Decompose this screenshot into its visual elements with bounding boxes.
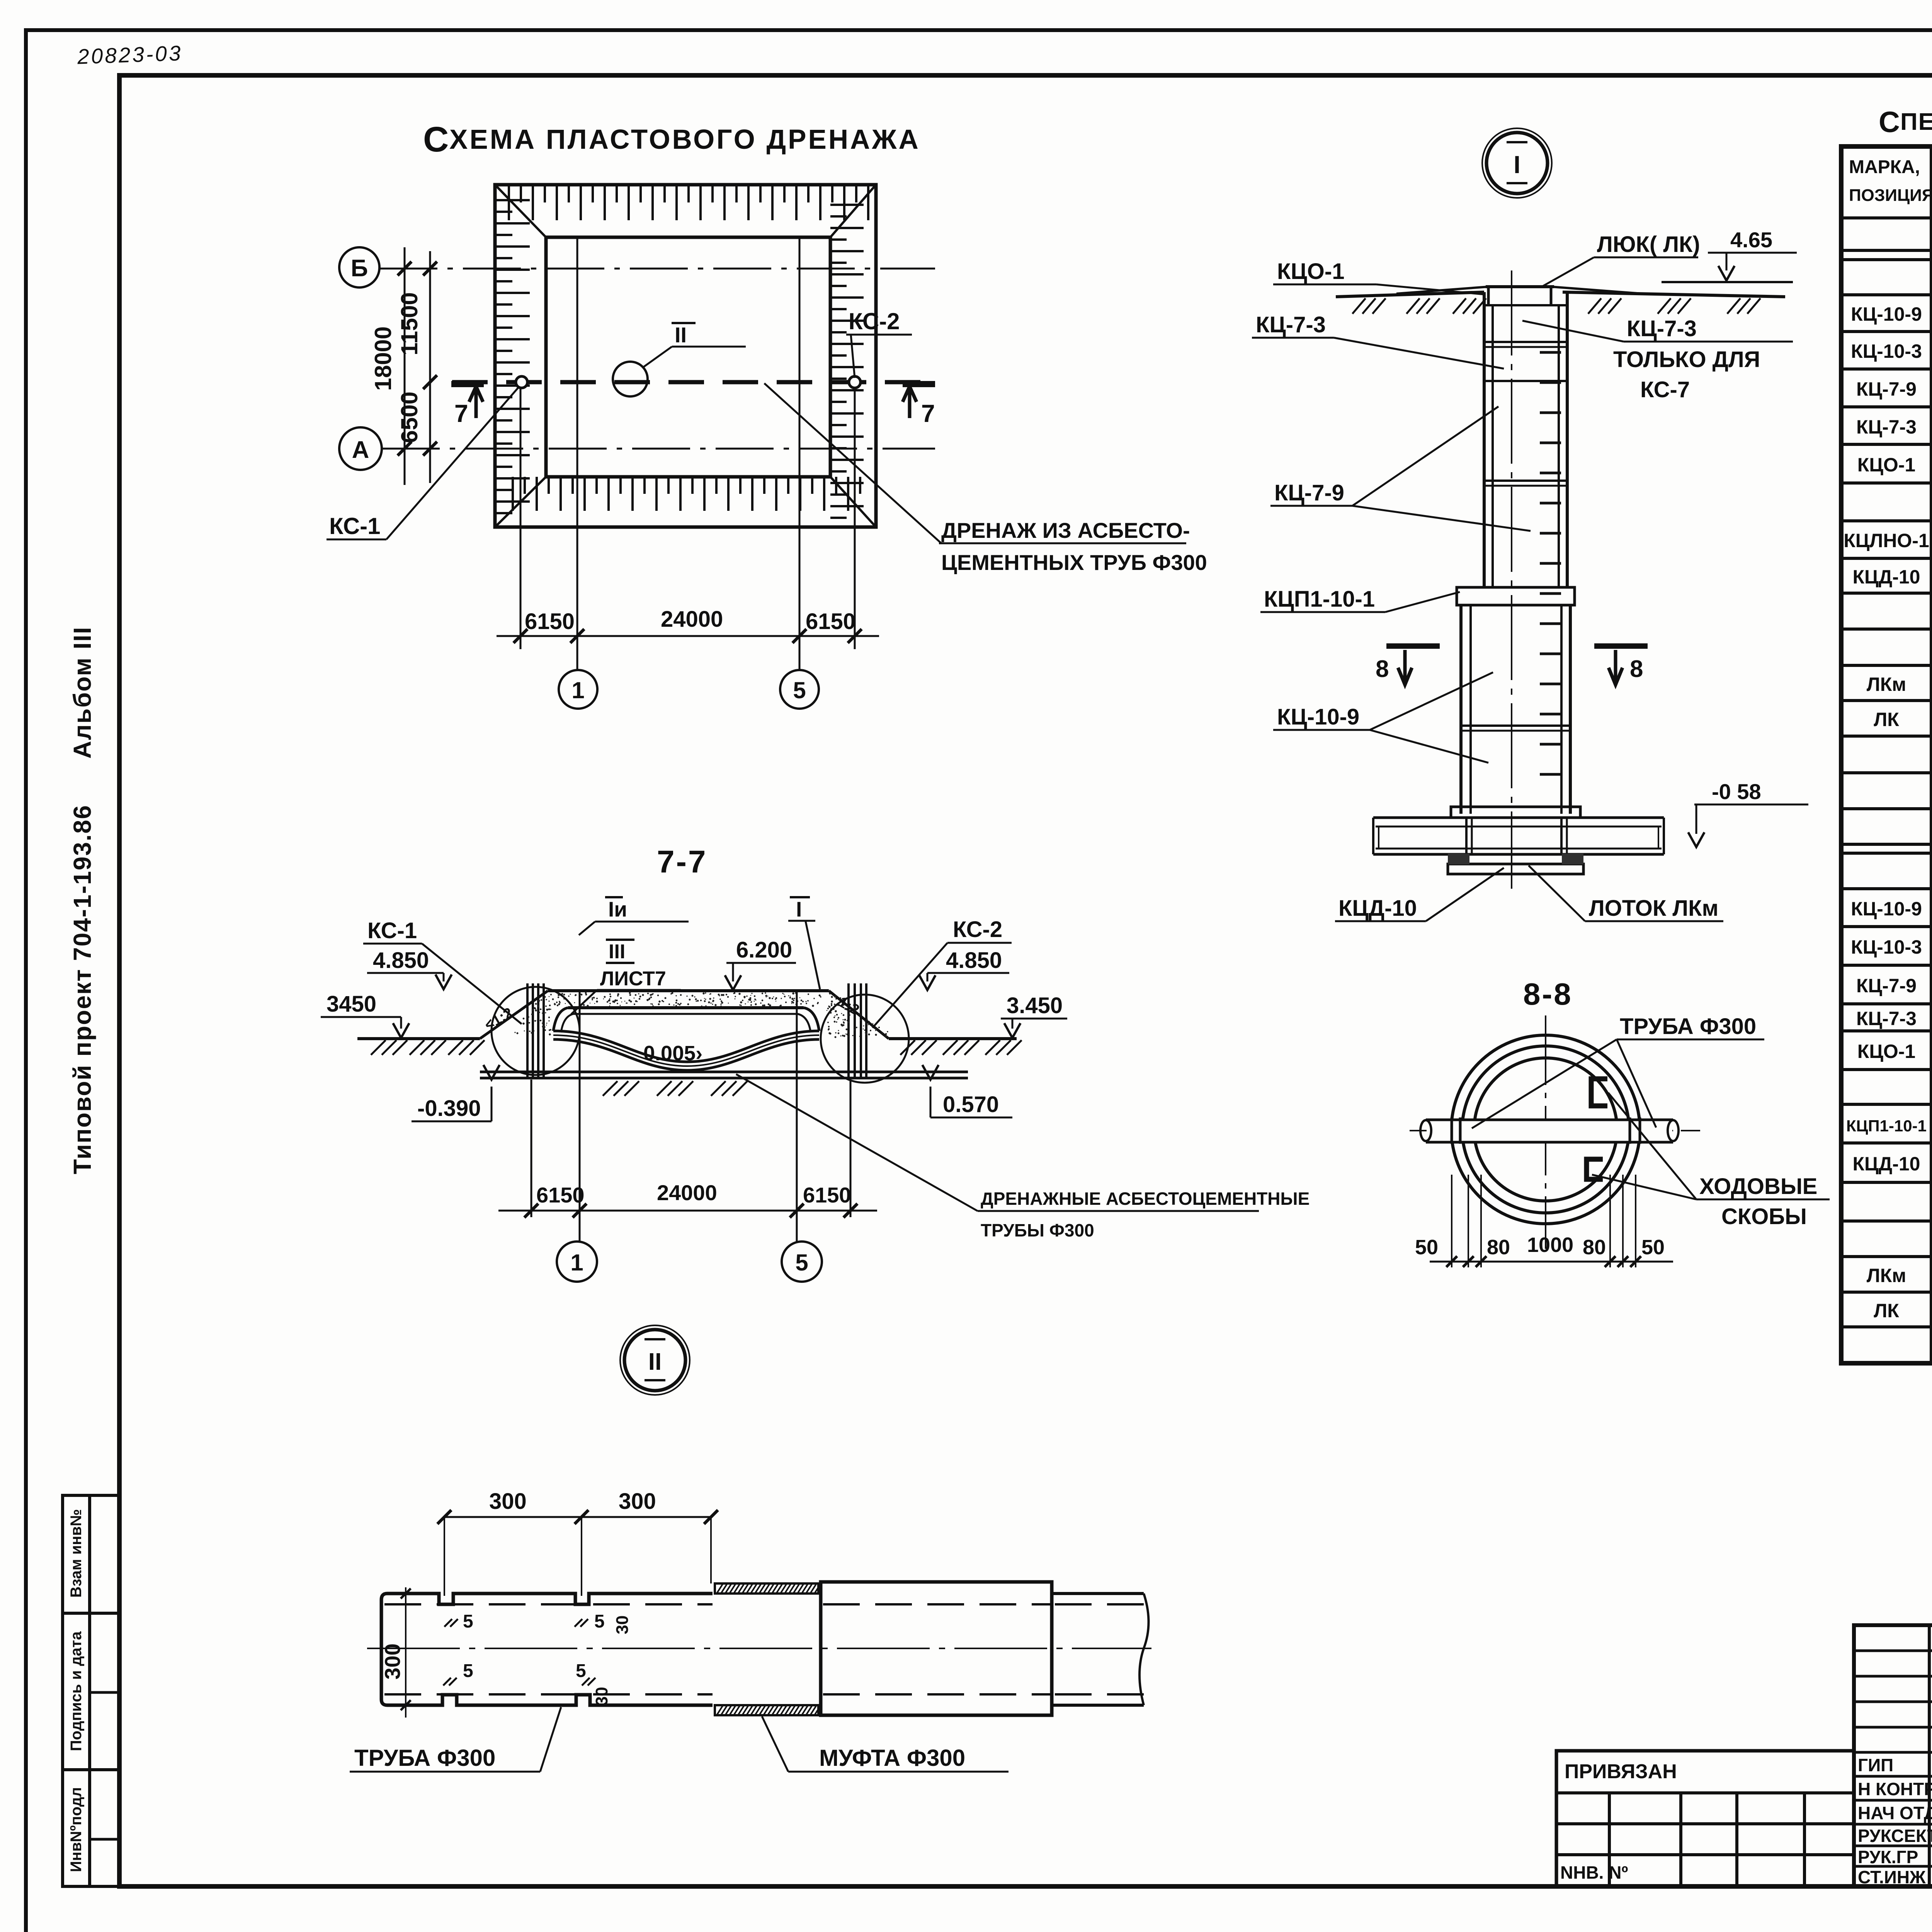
- node circle II on plan: [613, 362, 648, 396]
- horizontal drain pipe at well base: [1373, 816, 1664, 819]
- svg-text:11500: 11500: [396, 292, 422, 355]
- label II with leader: [643, 347, 672, 367]
- ground line left of well: [1336, 292, 1484, 297]
- svg-text:1: 1: [570, 1250, 583, 1276]
- well KC-1 shaft in section: [526, 983, 529, 1078]
- slope note 1:2 left: [482, 1005, 516, 1034]
- section 7-7 dimension line: [498, 1210, 877, 1212]
- svg-text:ПРИВЯЗАН: ПРИВЯЗАН: [1565, 1760, 1677, 1783]
- svg-text:КС-1: КС-1: [329, 513, 381, 539]
- svg-text:ЛК: ЛК: [1874, 709, 1899, 730]
- well wall hubs crossing pipe: [1465, 818, 1468, 854]
- pipe hubs at well walls 8-8: [1451, 1117, 1453, 1144]
- drain pipes curved in section: [553, 1031, 819, 1062]
- svg-text:I: I: [1514, 151, 1520, 179]
- svg-text:5: 5: [795, 1250, 808, 1276]
- manhole KC-2 on plan: [849, 376, 861, 388]
- svg-text:КЦ-7-9: КЦ-7-9: [1274, 480, 1344, 505]
- svg-text:30: 30: [592, 1687, 611, 1706]
- svg-text:ХОДОВЫЕ: ХОДОВЫЕ: [1699, 1174, 1817, 1199]
- svg-text:I: I: [796, 897, 802, 921]
- svg-text:6150: 6150: [536, 1183, 585, 1207]
- svg-text:КЦ-7-3: КЦ-7-3: [1856, 416, 1917, 438]
- svg-text:5: 5: [576, 1661, 586, 1681]
- leader from pipe label to pipe: [736, 1074, 978, 1211]
- svg-text:ЦЕМЕНТНЫХ ТРУБ Ф300: ЦЕМЕНТНЫХ ТРУБ Ф300: [941, 550, 1207, 575]
- pipe dashed inner walls: [384, 1603, 713, 1605]
- svg-text:С: С: [1879, 106, 1900, 139]
- detail circle at well KC-1: [492, 987, 580, 1075]
- ladder bracket top 8-8: [1591, 1079, 1607, 1106]
- svg-text:СКОБЫ: СКОБЫ: [1721, 1204, 1807, 1229]
- svg-text:24000: 24000: [661, 607, 723, 632]
- stipple dots on berm: [727, 996, 729, 998]
- svg-text:Б: Б: [351, 255, 368, 282]
- svg-text:МАРКА,: МАРКА,: [1849, 157, 1920, 177]
- svg-text:КЦД-10: КЦД-10: [1853, 1153, 1920, 1175]
- svg-text:6150: 6150: [806, 609, 855, 634]
- svg-text:80: 80: [1583, 1236, 1606, 1259]
- svg-text:3.450: 3.450: [1007, 993, 1063, 1018]
- svg-text:КЦП1-10-1: КЦП1-10-1: [1264, 587, 1375, 612]
- inventory number 20823-03 handwritten: [77, 41, 183, 69]
- pipe detail extension verticals: [444, 1517, 445, 1596]
- section 8-8 concentric rings: [1451, 1035, 1640, 1224]
- left bottom attribute boxes: [63, 1495, 120, 1886]
- svg-text:КЦЛНО-1: КЦЛНО-1: [1844, 530, 1929, 551]
- svg-text:КС-7: КС-7: [1640, 377, 1690, 402]
- svg-text:4.65: 4.65: [1730, 228, 1772, 252]
- coupling muff sleeve box: [821, 1582, 1052, 1715]
- svg-text:0.005›: 0.005›: [643, 1042, 702, 1065]
- svg-text:II: II: [675, 323, 687, 347]
- well KC-2 shaft in section: [847, 983, 850, 1078]
- svg-text:ПЕЦИФИКАЦИЯ К СХЕМЕ ПЛАСТОВОГО: ПЕЦИФИКАЦИЯ К СХЕМЕ ПЛАСТОВОГО ДРЕНАЖА: [1900, 109, 1932, 135]
- axis circle Б: [339, 247, 379, 287]
- svg-text:КЦО-1: КЦО-1: [1857, 1041, 1915, 1062]
- svg-text:ТРУБЫ Ф300: ТРУБЫ Ф300: [981, 1220, 1094, 1240]
- svg-text:ТРУБА Ф300: ТРУБА Ф300: [354, 1745, 495, 1771]
- svg-text:РУКСЕКТ: РУКСЕКТ: [1858, 1826, 1932, 1846]
- slope note 1:2 right: [835, 994, 862, 1019]
- svg-text:7: 7: [921, 400, 935, 427]
- section 7-7 extension verticals: [531, 1080, 532, 1217]
- svg-text:7: 7: [454, 400, 468, 427]
- svg-text:КЦП1-10-1: КЦП1-10-1: [1846, 1117, 1927, 1135]
- svg-text:КЦ-7-9: КЦ-7-9: [1856, 975, 1917, 997]
- svg-text:6150: 6150: [525, 609, 575, 634]
- svg-text:Н КОНТР: Н КОНТР: [1858, 1779, 1932, 1799]
- ground hatch marks section 7-7: [371, 1040, 386, 1055]
- svg-text:КЦД-10: КЦД-10: [1853, 566, 1920, 588]
- detail circle at well KC-2: [821, 995, 909, 1083]
- vertical dimension line 11500/6500: [429, 251, 431, 483]
- pipe body outline with joint notches: [381, 1594, 713, 1705]
- axis circle А: [339, 427, 382, 470]
- plan corner diagonals: [495, 185, 546, 237]
- svg-text:0.570: 0.570: [943, 1092, 999, 1117]
- svg-text:-0 58: -0 58: [1712, 779, 1761, 804]
- well centerline: [1511, 270, 1512, 889]
- svg-text:Iи: Iи: [608, 897, 627, 921]
- svg-text:6150: 6150: [803, 1183, 851, 1207]
- pipe centerline: [367, 1648, 1151, 1649]
- manhole cover luk: [1396, 287, 1488, 294]
- svg-text:8: 8: [1376, 656, 1389, 682]
- svg-text:КЦ-10-9: КЦ-10-9: [1851, 898, 1922, 920]
- svg-text:КЦ-10-3: КЦ-10-3: [1851, 340, 1922, 362]
- plan extension verticals: [577, 236, 578, 670]
- table row lines: [1841, 216, 1932, 219]
- lower column walls: [1459, 605, 1463, 814]
- svg-text:8-8: 8-8: [1523, 977, 1573, 1011]
- svg-text:НАЧ ОТД: НАЧ ОТД: [1858, 1803, 1932, 1823]
- svg-text:С: С: [423, 120, 451, 159]
- pipe detail dimension line 300+300: [444, 1516, 711, 1518]
- svg-text:Взам инв№: Взам инв№: [68, 1509, 85, 1597]
- node circle II below section: [620, 1325, 690, 1395]
- manhole KC-1 on plan: [516, 376, 527, 388]
- svg-text:А: А: [352, 437, 369, 463]
- svg-text:24000: 24000: [657, 1180, 717, 1205]
- svg-text:1000: 1000: [1527, 1233, 1573, 1257]
- svg-text:КЦ-10-9: КЦ-10-9: [1851, 303, 1922, 325]
- title block: privyazan box: [1556, 1751, 1854, 1886]
- axis circle 5 section: [782, 1242, 822, 1282]
- berm outline: [480, 991, 548, 1039]
- lotok hatched bits: [1448, 854, 1469, 864]
- svg-text:5: 5: [463, 1611, 473, 1632]
- svg-text:КЦ-7-9: КЦ-7-9: [1856, 378, 1917, 400]
- svg-text:20823-03: 20823-03: [77, 41, 183, 69]
- table column lines: [1930, 146, 1932, 1363]
- plan view hatched band outer rectangle: [495, 185, 876, 527]
- axis circle 1 section: [557, 1242, 597, 1282]
- ring joints lower column: [1461, 724, 1570, 727]
- svg-text:1: 1: [571, 677, 584, 703]
- svg-text:КС-2: КС-2: [849, 308, 900, 334]
- svg-text:Подпись и дата: Подпись и дата: [68, 1631, 85, 1751]
- svg-text:300: 300: [489, 1489, 527, 1514]
- title block: signature grid: [1854, 1625, 1932, 1886]
- svg-text:ЛК: ЛК: [1874, 1300, 1899, 1321]
- svg-text:КЦ-10-3: КЦ-10-3: [1851, 936, 1922, 958]
- right pipe after coupling: [1052, 1592, 1144, 1595]
- axis line А: [382, 448, 935, 450]
- section mark 7 left: [451, 381, 484, 387]
- svg-text:ЛЮК( ЛК): ЛЮК( ЛК): [1597, 232, 1700, 257]
- blanket left end curves: [553, 1008, 568, 1031]
- svg-text:NНВ. Nº: NНВ. Nº: [1560, 1862, 1628, 1883]
- table outer border: [1841, 146, 1932, 1363]
- svg-text:8: 8: [1630, 656, 1643, 682]
- svg-text:50: 50: [1415, 1236, 1438, 1259]
- vertical dimension line 18000: [404, 247, 406, 485]
- section 8-8 horizontal centerline: [1410, 1130, 1700, 1131]
- svg-text:КС-1: КС-1: [367, 918, 417, 943]
- svg-text:4.850: 4.850: [373, 948, 429, 973]
- coupling muff hatched wedges: [715, 1583, 818, 1594]
- ladder bracket bottom 8-8: [1587, 1159, 1603, 1179]
- section mark 8 right: [1594, 643, 1648, 649]
- ground line left of berm: [357, 1037, 480, 1040]
- drainage blanket top in section: [568, 1006, 804, 1009]
- section 8-8 vertical centerline: [1545, 1015, 1546, 1249]
- svg-text:КЦ-10-9: КЦ-10-9: [1277, 704, 1359, 730]
- svg-text:6500: 6500: [396, 391, 422, 443]
- node circle I above well section: [1482, 128, 1552, 198]
- plan hatch ticks right band: [508, 185, 510, 220]
- svg-text:КЦД-10: КЦД-10: [1338, 896, 1417, 921]
- svg-text:ДРЕНАЖНЫЕ АСБЕСТОЦЕМЕНТНЫЕ: ДРЕНАЖНЫЕ АСБЕСТОЦЕМЕНТНЫЕ: [981, 1189, 1310, 1209]
- svg-text:3450: 3450: [327, 992, 376, 1017]
- svg-text:Типовой проект 704-1-193.86: Типовой проект 704-1-193.86 Альбом III: [68, 626, 96, 1174]
- section 8-8 extension verticals: [1451, 1175, 1452, 1267]
- plan view inner rectangle: [546, 237, 830, 477]
- svg-text:7-7: 7-7: [657, 844, 707, 879]
- svg-text:ИнвNºподл: ИнвNºподл: [68, 1787, 85, 1872]
- svg-text:КЦ-7-3: КЦ-7-3: [1256, 312, 1326, 337]
- svg-text:III: III: [609, 940, 625, 963]
- svg-text:18000: 18000: [370, 327, 396, 391]
- section mark 7 right: [903, 381, 935, 387]
- svg-text:КЦ-7-3: КЦ-7-3: [1627, 316, 1697, 341]
- svg-text:5: 5: [463, 1661, 473, 1681]
- svg-text:КС-2: КС-2: [953, 917, 1002, 942]
- ground line right of well: [1563, 292, 1785, 297]
- svg-text:ДРЕНАЖ ИЗ АСБЕСТО-: ДРЕНАЖ ИЗ АСБЕСТО-: [941, 518, 1190, 543]
- svg-text:50: 50: [1641, 1236, 1665, 1259]
- svg-text:ТОЛЬКО ДЛЯ: ТОЛЬКО ДЛЯ: [1613, 347, 1760, 372]
- section mark 8 left: [1386, 643, 1440, 649]
- pipe end caps at well base: [1372, 818, 1374, 854]
- axis circle 1 plan: [559, 670, 597, 709]
- svg-text:КЦ-7-3: КЦ-7-3: [1856, 1008, 1917, 1029]
- svg-text:5: 5: [594, 1611, 605, 1632]
- svg-text:ТРУБА Ф300: ТРУБА Ф300: [1620, 1014, 1756, 1039]
- svg-text:СТ.ИНЖ: СТ.ИНЖ: [1858, 1867, 1926, 1887]
- svg-text:300: 300: [380, 1643, 405, 1679]
- svg-text:300: 300: [619, 1489, 656, 1514]
- bottom flange: [1451, 807, 1580, 818]
- leader from drain label to pipe: [764, 383, 941, 543]
- svg-text:6.200: 6.200: [736, 937, 792, 963]
- svg-text:ПОЗИЦИЯ: ПОЗИЦИЯ: [1849, 186, 1932, 205]
- axis line Б: [379, 268, 935, 270]
- svg-text:КЦО-1: КЦО-1: [1277, 259, 1344, 284]
- svg-text:ХЕМА ПЛАСТОВОГО ДРЕНАЖА: ХЕМА ПЛАСТОВОГО ДРЕНАЖА: [449, 124, 920, 155]
- drain pipe dashed centerline: [452, 380, 933, 384]
- svg-text:КЦО-1: КЦО-1: [1857, 454, 1915, 476]
- svg-text:II: II: [648, 1349, 662, 1375]
- slab КЦП1-10-1: [1457, 587, 1575, 605]
- svg-text:ЛОТОК ЛКм: ЛОТОК ЛКм: [1589, 896, 1718, 921]
- svg-text:4.850: 4.850: [946, 948, 1002, 973]
- blanket right end curves: [804, 1008, 819, 1031]
- axis circle 5 plan: [780, 670, 819, 709]
- svg-text:5: 5: [793, 677, 806, 703]
- svg-text:-0.390: -0.390: [417, 1096, 481, 1121]
- bottom slab КЦД-10: [1448, 864, 1583, 874]
- plan bottom dimension line 6150/24000/6150: [497, 635, 879, 637]
- svg-text:80: 80: [1487, 1236, 1510, 1259]
- svg-text:30: 30: [613, 1616, 632, 1634]
- ground hatch right of well: [1352, 298, 1366, 314]
- foundation lines under tank: [480, 1071, 968, 1073]
- svg-text:ГИП: ГИП: [1858, 1755, 1893, 1775]
- svg-text:ЛИСТ7: ЛИСТ7: [600, 968, 666, 990]
- svg-text:ЛКм: ЛКм: [1867, 1265, 1906, 1286]
- ladder rungs: [1540, 351, 1561, 354]
- section 8-8 dimension line: [1430, 1261, 1673, 1263]
- pipe through well 8-8: [1427, 1120, 1672, 1142]
- svg-text:РУК.ГР: РУК.ГР: [1858, 1847, 1918, 1867]
- ring joints upper shaft: [1484, 341, 1567, 343]
- svg-text:МУФТА Ф300: МУФТА Ф300: [819, 1745, 965, 1771]
- upper shaft walls: [1483, 292, 1486, 587]
- svg-text:ЛКм: ЛКм: [1867, 673, 1906, 695]
